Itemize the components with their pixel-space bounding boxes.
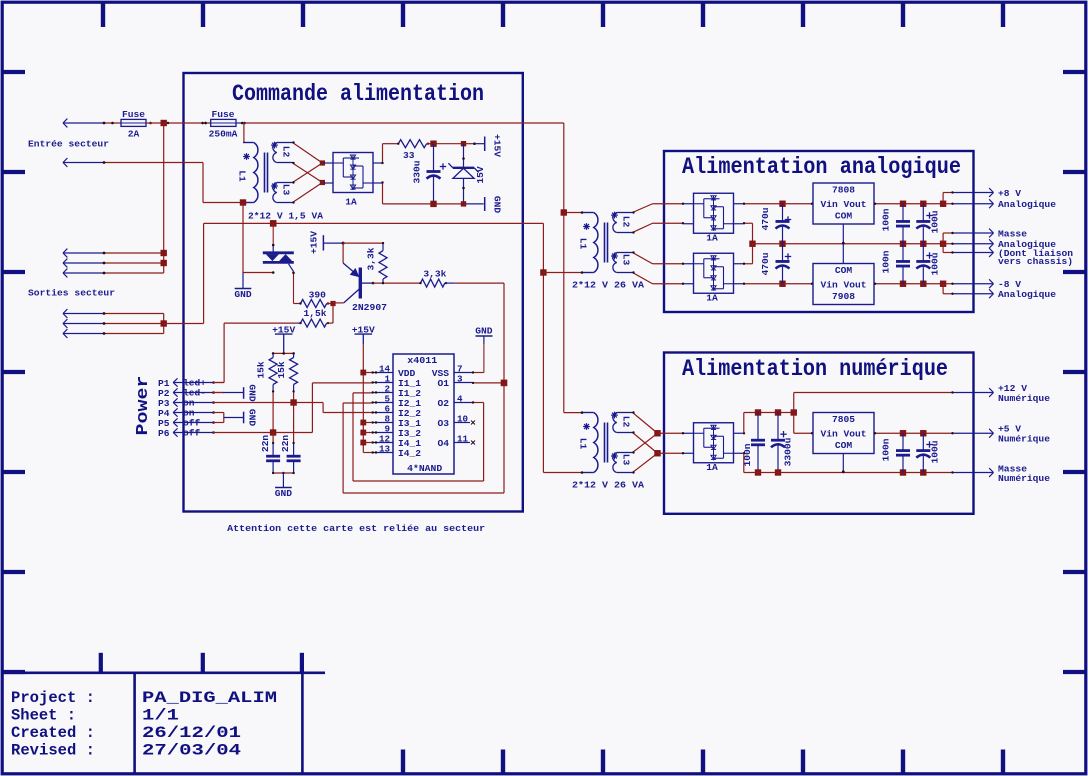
wire L2top to bridge	[292, 141, 322, 163]
global label sortie neutre 1	[63, 309, 103, 318]
wire to bridge pins	[322, 163, 323, 183]
svg-text:Project :: Project :	[11, 689, 95, 707]
svg-text:11: 11	[457, 433, 469, 444]
capacitor C100n c	[742, 413, 765, 473]
wire sortie neutre 3	[103, 332, 164, 335]
svg-text:Fuse: Fuse	[211, 109, 234, 120]
wire mains neutral to T3	[543, 471, 583, 474]
title Commande alimentation	[232, 81, 484, 107]
svg-text:10: 10	[457, 413, 468, 424]
rail 15k top	[272, 352, 295, 355]
wire P4-P5 tie	[224, 413, 244, 423]
svg-text:L2: L2	[621, 216, 632, 228]
svg-text:O1: O1	[437, 378, 449, 389]
IC pin 11 nc x	[471, 441, 475, 445]
wire L3top to bridge	[292, 163, 322, 184]
label L3 T2	[621, 254, 632, 266]
global label Masse	[954, 228, 1028, 239]
wire neutre vertical	[203, 163, 243, 203]
IC pin 10 O3	[437, 413, 470, 429]
wire 7805 out rail	[874, 432, 954, 434]
wire P4 on	[213, 412, 224, 414]
svg-text:7805: 7805	[832, 414, 855, 425]
junction C470b top? bottom	[779, 241, 785, 247]
masse rail	[753, 243, 944, 245]
svg-text:2*12 V 26 VA: 2*12 V 26 VA	[572, 479, 644, 490]
IC pin 13 I4_2	[372, 443, 422, 459]
svg-text:390: 390	[309, 289, 327, 300]
svg-text:Commande alimentation: Commande alimentation	[232, 81, 484, 107]
svg-text:3300u: 3300u	[783, 437, 794, 466]
junction T1 primary bottom	[240, 199, 246, 205]
title block	[3, 653, 325, 773]
junction C100n-d top	[900, 430, 906, 436]
wire C22n-b top	[292, 403, 294, 445]
junction R390/R1,5k	[330, 301, 335, 306]
junction T3 sec -	[654, 450, 660, 456]
svg-text:100n: 100n	[881, 208, 892, 231]
wire junction to fuse2	[164, 122, 211, 124]
wire P4	[212, 411, 215, 414]
capacitor C100u a	[916, 204, 940, 244]
svg-text:Analogique: Analogique	[998, 289, 1056, 300]
svg-text:15V: 15V	[475, 166, 486, 184]
wire P6 riser to I1_1	[312, 383, 371, 433]
global label +5 V	[954, 424, 1051, 445]
connector pin P5 label	[158, 418, 170, 429]
connector pin P1 arrow	[173, 378, 213, 389]
wire -8 out	[943, 283, 954, 285]
connector pin P3 arrow	[173, 398, 213, 409]
junction C330u bottom	[430, 201, 436, 207]
wire masse stub up	[943, 232, 954, 244]
global label -8 V	[954, 279, 1022, 290]
wire mains live to T3	[564, 411, 584, 414]
global label sortie phase 3	[63, 269, 103, 278]
wire T1 primary bottom down	[242, 203, 244, 273]
wire O1 out	[472, 382, 504, 384]
svg-text:1A: 1A	[706, 233, 718, 244]
junction phase bus 1	[161, 250, 167, 256]
connector pin P4 arrow	[173, 408, 213, 419]
IC pin 7 VSS	[432, 363, 472, 379]
label L1 T3	[578, 438, 589, 450]
resistor R15k a	[255, 353, 277, 392]
box Alimentation analogique	[664, 151, 974, 312]
wire +15V IC vertical	[362, 344, 364, 453]
wire +8 rail to 7808	[783, 203, 814, 205]
resistor R3,3k horizontal	[419, 268, 454, 287]
junction zener bottom	[461, 201, 466, 206]
regulator U2 7808	[813, 183, 874, 224]
fuse F1 2A	[111, 109, 152, 140]
svg-text:Created :: Created :	[11, 724, 95, 742]
capacitor C100u b	[916, 244, 940, 284]
IC pin 9 I3_2	[372, 423, 422, 439]
wire O2 feedback	[353, 393, 484, 481]
wire L3bot to bridge	[292, 183, 322, 204]
junction -8 out	[940, 281, 946, 287]
box Commande alimentation	[184, 73, 523, 512]
svg-text:100u: 100u	[930, 440, 941, 463]
capacitor C100n b	[881, 244, 911, 284]
junction C100n-a top	[900, 201, 906, 207]
value bridge D2 1A	[706, 233, 718, 244]
svg-text:L2: L2	[621, 416, 632, 428]
wire bridge out+ up	[381, 144, 383, 165]
wire masse stub down	[943, 244, 954, 254]
global label Analogique (-8)	[954, 289, 1057, 300]
svg-text:GND: GND	[275, 488, 293, 499]
wire P5	[212, 421, 215, 424]
svg-text:Numérique: Numérique	[998, 393, 1050, 404]
wire T3 to bridge +	[658, 432, 685, 434]
gnd rail numerique	[744, 471, 954, 473]
global label Analogique (masse)	[954, 239, 1057, 250]
junction phase bus 2	[161, 260, 167, 266]
svg-text:O3: O3	[437, 418, 449, 429]
power +15V (transistor)	[309, 231, 345, 254]
svg-text:+15V: +15V	[352, 324, 375, 335]
wire pin13 stub	[363, 452, 371, 454]
wire gate to R390	[294, 303, 301, 305]
wire +8V stub	[943, 191, 954, 203]
svg-text:off: off	[183, 428, 201, 439]
title Alimentation numerique	[682, 356, 948, 382]
junction P3/R15k-b	[290, 399, 296, 405]
svg-text:GND: GND	[246, 409, 257, 427]
wire D2 out-	[743, 222, 753, 244]
fuse F2 250mA	[201, 109, 237, 140]
junction C100n-c top	[755, 409, 761, 415]
svg-text:Sorties secteur: Sorties secteur	[28, 288, 115, 299]
connector pin P6 label	[158, 428, 170, 439]
wire +15V rail to R3,3k	[343, 242, 383, 244]
wire P6 off	[213, 432, 313, 434]
wire D2 out+ rail	[743, 203, 783, 205]
wire T2 primary top stub	[564, 211, 584, 214]
wire R15k-b down	[293, 393, 295, 403]
ground GND (VSS)	[475, 325, 493, 336]
IC pin 11 O4	[437, 433, 470, 449]
ground GND (P4P5)	[244, 409, 258, 427]
wire T2 L3bot to bridge B	[632, 271, 684, 285]
svg-text:100n: 100n	[881, 438, 892, 461]
wire O1 down to feedback	[343, 383, 504, 493]
wire phase to fuse	[103, 122, 121, 125]
label L2 T1	[281, 146, 292, 158]
global label Masse num	[954, 464, 1051, 485]
svg-text:O2: O2	[437, 398, 449, 409]
junction C100u-a bot	[920, 241, 926, 247]
wire bridge out- down	[381, 181, 383, 204]
svg-text:Alimentation numérique: Alimentation numérique	[682, 356, 948, 382]
svg-text:PA_DIG_ALIM: PA_DIG_ALIM	[142, 689, 277, 707]
wire +8 analog	[943, 203, 954, 205]
junction bridge in-	[320, 180, 325, 185]
gnd rail 22n	[272, 472, 295, 474]
junction masse left	[749, 241, 755, 247]
wire O1 net vertical	[503, 283, 505, 383]
wire pin9 stub	[363, 432, 371, 434]
svg-text:1A: 1A	[706, 462, 718, 473]
svg-text:Fuse: Fuse	[122, 109, 145, 120]
label L1 T1	[237, 170, 248, 182]
transformer T2 (analogique)	[583, 212, 633, 273]
vertical neutre bus	[163, 314, 165, 334]
bridge rectifier D3 (analog -)	[684, 253, 743, 293]
wire R33 to C330u	[427, 143, 434, 145]
wire L2bot to bridge	[292, 162, 322, 183]
resistor R1,5k	[299, 308, 333, 327]
svg-text:250mA: 250mA	[209, 129, 238, 140]
regulator U3 7908	[813, 264, 874, 305]
title Alimentation analogique	[682, 154, 961, 180]
capacitor C100n d	[881, 433, 911, 472]
global label Dont liaison	[954, 248, 1074, 259]
wire sortie neutre 1	[103, 312, 164, 315]
svg-text:470u: 470u	[760, 207, 771, 230]
wire T1 bottom to triac	[243, 271, 275, 274]
wire T3 L3bot diag	[632, 453, 657, 473]
svg-text:100n: 100n	[881, 250, 892, 273]
svg-text:4*NAND: 4*NAND	[407, 463, 442, 474]
connector pin P5 arrow	[173, 418, 213, 429]
value T1 2*12V 1,5VA	[248, 210, 323, 221]
wire T2 primary bottom stub	[543, 271, 583, 274]
gnd stub below T1 bottom	[242, 273, 244, 289]
zener diode 15V	[448, 144, 486, 204]
svg-text:+15V: +15V	[492, 134, 503, 157]
wire R3,3k to O1 net	[455, 282, 504, 284]
junction neutre bus	[161, 320, 167, 326]
transformer T3 (numerique)	[583, 412, 633, 473]
wire VSS	[472, 336, 484, 374]
capacitor C3300u	[771, 413, 794, 473]
svg-text:Revised :: Revised :	[11, 742, 95, 760]
wire T2 L2bot to bridge A	[632, 222, 684, 234]
wire collector	[333, 302, 344, 304]
svg-text:15k: 15k	[255, 361, 266, 379]
wire T3 L2bot diag	[632, 431, 657, 453]
wire 7808 out rail	[874, 203, 943, 205]
triac Q1	[263, 253, 294, 272]
svg-text:Numérique: Numérique	[998, 433, 1050, 444]
connector pin P4 label	[158, 408, 170, 419]
capacitor C22n a	[260, 435, 280, 473]
ground GND (22n)	[275, 473, 293, 499]
IC pin 4 O2	[437, 393, 472, 409]
value bridge 1A	[345, 196, 357, 207]
wire mains neutral down	[542, 223, 544, 472]
wire D4 out- jog	[743, 452, 745, 472]
capacitor C470u b	[760, 244, 791, 284]
svg-text:Entrée secteur: Entrée secteur	[28, 139, 109, 150]
svg-text:3: 3	[457, 373, 463, 384]
wire P1	[212, 381, 224, 384]
junction C100u-b2 bot	[920, 469, 926, 475]
box Alimentation numerique	[664, 353, 974, 514]
junction C330u top	[430, 141, 436, 147]
svg-text:L1: L1	[578, 438, 589, 450]
label L1 T2	[578, 238, 589, 250]
connector pin P3 label	[158, 398, 170, 409]
junction pin8	[360, 420, 366, 426]
wire P6	[212, 431, 215, 434]
svg-text:L3: L3	[621, 454, 632, 466]
value T2 2*12V 26VA	[572, 279, 644, 290]
global label entrée L (phase)	[63, 119, 103, 128]
label vers chassis	[998, 256, 1073, 267]
wire O2 out	[472, 401, 484, 403]
global label +8 V	[954, 188, 1022, 199]
wire P2	[212, 391, 224, 394]
IC pin 1 I1_1	[372, 373, 422, 389]
junction C100u-b bot	[920, 281, 926, 287]
wire 7908 COM	[842, 244, 844, 264]
svg-text:COM: COM	[835, 265, 853, 276]
junction P6/C22n-a	[270, 429, 276, 435]
svg-text:15k: 15k	[276, 361, 287, 379]
svg-text:L1: L1	[578, 238, 589, 250]
wire R15k-a down	[272, 393, 274, 433]
junction pin9	[360, 430, 366, 436]
svg-text:+8 V: +8 V	[998, 188, 1021, 199]
svg-text:1A: 1A	[706, 293, 718, 304]
value bridge D3 1A	[706, 293, 718, 304]
junction O1	[501, 380, 508, 387]
wire sortie neutre 2	[103, 322, 164, 325]
IC pin 3 O1	[437, 373, 472, 389]
junction bridge in+	[320, 160, 325, 165]
junction C100n-d bot	[900, 469, 906, 475]
svg-text:100u: 100u	[930, 252, 941, 275]
wire T3 L2top diag	[632, 411, 657, 433]
svg-text:13: 13	[379, 443, 391, 454]
regulator U4 7805	[813, 413, 874, 454]
wire 7808 COM	[842, 224, 845, 245]
svg-text:vers chassis): vers chassis)	[998, 256, 1073, 267]
wire C22n-a top	[272, 433, 274, 445]
svg-text:Attention cette carte est reli: Attention cette carte est reliée au sect…	[227, 523, 485, 534]
wire 7908 out rail	[874, 283, 943, 285]
wire -8 stub down	[943, 284, 954, 295]
junction C100n-c bot	[755, 469, 761, 475]
connector pin P6 arrow	[173, 428, 213, 439]
wire T3 to bridge -	[658, 452, 685, 454]
svg-text:1A: 1A	[345, 196, 357, 207]
resistor R390	[299, 289, 329, 307]
svg-text:Masse: Masse	[998, 228, 1027, 239]
svg-text:L2: L2	[281, 146, 292, 158]
svg-text:2*12 V 1,5 VA: 2*12 V 1,5 VA	[248, 210, 323, 221]
wire T2 L2top to bridge A	[632, 203, 684, 214]
wire junction down	[332, 304, 334, 324]
svg-text:Alimentation analogique: Alimentation analogique	[682, 154, 961, 180]
IC value 4*NAND	[407, 463, 442, 474]
connector pin P2 arrow	[173, 388, 213, 399]
wire Vin 7805	[794, 413, 813, 435]
svg-text:+15V: +15V	[272, 324, 295, 335]
svg-text:4: 4	[457, 393, 463, 404]
label L2 T2	[621, 216, 632, 228]
svg-text:22n: 22n	[280, 435, 291, 453]
junction triac top	[270, 220, 277, 227]
svg-text:2*12 V 26 VA: 2*12 V 26 VA	[572, 279, 644, 290]
resistor R 33	[397, 140, 429, 161]
svg-text:+15V: +15V	[309, 231, 320, 254]
wire T2 L3top to bridge B	[632, 251, 684, 265]
junction T3 sec +	[654, 430, 660, 436]
wire P3	[212, 401, 215, 404]
junction C100u-b2 top	[920, 430, 926, 436]
svg-text:COM: COM	[835, 440, 853, 451]
wire D3 out+	[743, 244, 753, 265]
svg-text:Numérique: Numérique	[998, 473, 1050, 484]
wire pin12 stub	[363, 442, 371, 444]
svg-text:L3: L3	[281, 184, 292, 196]
wire to T1 primary top	[243, 123, 245, 143]
junction C470a top	[779, 201, 785, 207]
wire P1 led+ to riser	[213, 382, 224, 384]
svg-text:1,5k: 1,5k	[303, 308, 326, 319]
svg-text:O4: O4	[437, 438, 449, 449]
wire R390 right	[327, 303, 333, 305]
wire masse out	[943, 243, 954, 245]
wire D3 out- rail	[743, 283, 783, 285]
IC pin 6 I2_2	[372, 403, 422, 419]
svg-text:3,3k: 3,3k	[423, 268, 446, 279]
junction VDD	[360, 370, 366, 376]
transformer T1 (commande)	[243, 142, 293, 203]
junction C3300u top	[775, 409, 781, 415]
wire to +15V bar	[464, 142, 485, 145]
wire sortie phase 3	[103, 272, 164, 275]
wire triac gate	[292, 272, 295, 304]
power +15V (15k)	[272, 324, 295, 353]
wire T3 L3top diag	[632, 433, 657, 453]
wire D4 out+ jog	[743, 413, 794, 435]
ground GND (triac)	[234, 289, 252, 301]
IC pin 2 I1_2	[372, 383, 422, 399]
capacitor C470u a	[760, 204, 791, 244]
svg-text:33: 33	[403, 150, 415, 161]
junction pin12	[360, 440, 366, 446]
svg-text:7808: 7808	[832, 184, 855, 195]
capacitor C330u	[412, 144, 447, 204]
wire P5 off	[213, 422, 224, 424]
ground GND (330u)	[485, 196, 503, 214]
wire sortie phase 2	[103, 262, 164, 265]
svg-text:2N2907: 2N2907	[352, 302, 387, 313]
svg-text:GND: GND	[475, 325, 493, 336]
junction C100n-a bot	[900, 241, 906, 247]
transistor Q2 2N2907	[343, 263, 387, 313]
bridge rectifier D2 (analog +)	[684, 193, 743, 233]
svg-text:27/03/04: 27/03/04	[142, 742, 241, 760]
resistor R3,3k vertical	[366, 242, 388, 284]
svg-text:Vin Vout: Vin Vout	[820, 280, 866, 291]
junction T2 primary top	[561, 209, 567, 215]
junction C3300u bot	[775, 469, 781, 475]
svg-text:7908: 7908	[832, 291, 855, 302]
junction +12 tap	[791, 409, 797, 415]
label Entrée secteur	[28, 139, 109, 150]
junction C100u-a top	[920, 201, 926, 207]
label Power	[134, 376, 153, 436]
svg-text:GND: GND	[246, 384, 257, 402]
wire R1,5k left	[224, 322, 300, 324]
